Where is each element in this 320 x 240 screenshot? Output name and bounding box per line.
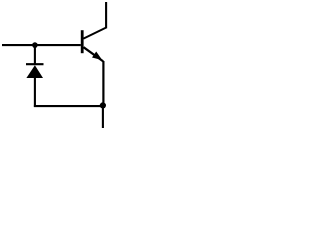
node B junction dot bottom right	[100, 102, 106, 108]
wire emitter vertical	[102, 61, 104, 105]
wire collector vertical	[105, 2, 107, 28]
transistor Q1 base bar	[81, 30, 84, 53]
wire diode top lead	[34, 45, 36, 64]
wire diode bottom lead	[34, 77, 36, 107]
wire base horizontal (left input to transistor base)	[2, 44, 81, 46]
transistor Q1 collector diagonal	[83, 28, 106, 39]
diode D1 anode triangle	[26, 65, 43, 78]
wire bottom horizontal	[34, 105, 103, 107]
wire bottom stub below junction	[102, 105, 104, 128]
transistor Q1 emitter arrowhead	[92, 52, 102, 61]
transistor Q1 emitter diagonal	[84, 47, 104, 61]
diode D1 cathode bar	[26, 63, 44, 65]
node A junction dot on base wire	[32, 42, 38, 48]
